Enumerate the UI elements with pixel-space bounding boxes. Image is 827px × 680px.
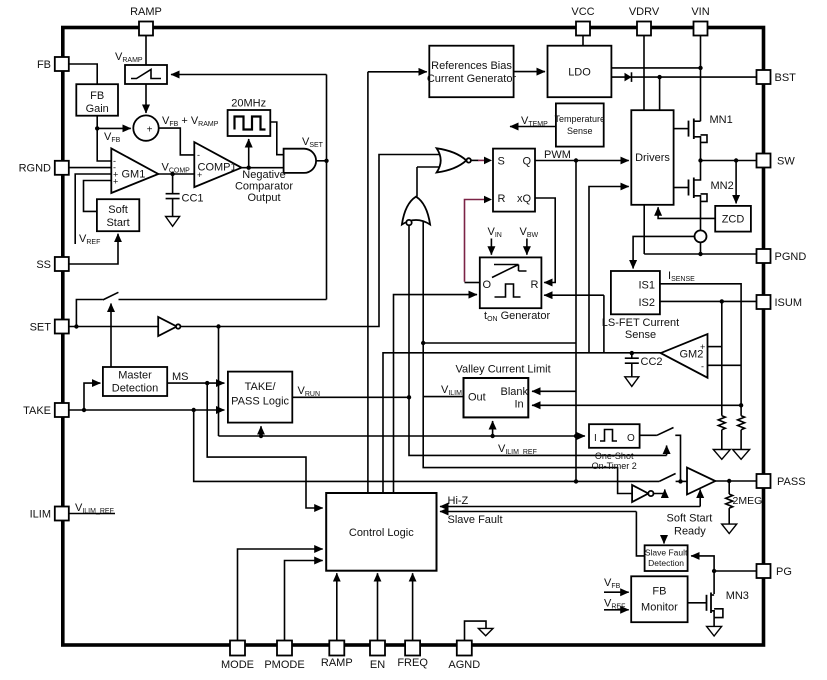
svg-text:RAMP: RAMP [130, 6, 162, 18]
svg-text:Detection: Detection [112, 383, 158, 395]
svg-text:FB: FB [37, 59, 51, 71]
svg-text:Output: Output [247, 192, 280, 204]
svg-text:Soft Start: Soft Start [667, 513, 713, 525]
svg-text:Sense: Sense [567, 126, 593, 136]
svg-text:Master: Master [118, 370, 152, 382]
svg-text:GM1: GM1 [122, 169, 146, 181]
svg-text:Slave Fault: Slave Fault [645, 548, 688, 558]
svg-text:Valley Current Limit: Valley Current Limit [456, 364, 551, 376]
svg-text:Drivers: Drivers [635, 152, 670, 164]
svg-text:CC1: CC1 [182, 193, 204, 205]
svg-text:Out: Out [468, 392, 486, 404]
svg-text:SET: SET [30, 322, 52, 334]
svg-text:Start: Start [106, 217, 129, 229]
svg-text:FB: FB [90, 90, 104, 102]
svg-text:References Bias: References Bias [431, 60, 512, 72]
svg-text:Soft: Soft [108, 204, 128, 216]
svg-text:ZCD: ZCD [722, 214, 745, 226]
svg-text:Q: Q [522, 156, 531, 168]
svg-text:+: + [147, 125, 153, 136]
svg-text:IS2: IS2 [638, 297, 655, 309]
svg-text:Gain: Gain [86, 103, 109, 115]
svg-text:MN3: MN3 [726, 590, 749, 602]
svg-text:PMODE: PMODE [264, 659, 304, 671]
svg-text:+: + [700, 342, 705, 352]
svg-text:CC2: CC2 [641, 356, 663, 368]
svg-text:S: S [498, 156, 505, 168]
svg-text:LS-FET Current: LS-FET Current [602, 317, 679, 329]
svg-text:In: In [515, 399, 524, 411]
svg-text:Hi-Z: Hi-Z [448, 495, 469, 507]
svg-text:FB: FB [652, 586, 666, 598]
svg-text:Ready: Ready [674, 526, 706, 538]
svg-text:PASS: PASS [777, 476, 806, 488]
svg-text:+: + [113, 176, 118, 186]
svg-text:20MHz: 20MHz [231, 98, 266, 110]
svg-text:Sense: Sense [625, 329, 656, 341]
svg-text:Negative: Negative [242, 169, 285, 181]
svg-text:R: R [531, 279, 539, 291]
svg-text:VCC: VCC [571, 6, 594, 18]
svg-text:Slave Fault: Slave Fault [448, 514, 503, 526]
svg-text:ISUM: ISUM [775, 297, 803, 309]
svg-text:BST: BST [775, 72, 797, 84]
svg-text:VDRV: VDRV [629, 6, 660, 18]
svg-text:IS1: IS1 [638, 280, 655, 292]
svg-text:FREQ: FREQ [397, 657, 428, 669]
svg-text:On-Timer 2: On-Timer 2 [592, 461, 637, 471]
svg-text:Monitor: Monitor [641, 602, 678, 614]
svg-text:LDO: LDO [568, 67, 591, 79]
svg-text:Detection: Detection [648, 558, 684, 568]
svg-text:Current Generator: Current Generator [427, 73, 517, 85]
svg-text:Temperature: Temperature [555, 114, 606, 124]
svg-text:PASS Logic: PASS Logic [231, 396, 289, 408]
svg-text:PWM: PWM [544, 149, 571, 161]
svg-text:MN1: MN1 [710, 114, 733, 126]
svg-text:TAKE: TAKE [23, 405, 51, 417]
svg-text:I: I [594, 433, 597, 444]
svg-text:PG: PG [776, 566, 792, 578]
svg-text:SW: SW [777, 156, 795, 168]
svg-text:2MEG: 2MEG [733, 495, 763, 507]
svg-text:TAKE/: TAKE/ [245, 381, 277, 393]
svg-text:O: O [627, 433, 635, 444]
svg-text:O: O [483, 279, 492, 291]
svg-text:AGND: AGND [448, 659, 480, 671]
svg-text:xQ: xQ [517, 193, 532, 205]
svg-text:-: - [197, 150, 200, 160]
svg-text:PGND: PGND [775, 251, 807, 263]
svg-text:MODE: MODE [221, 659, 254, 671]
svg-text:Blank: Blank [501, 386, 529, 398]
svg-text:One-Shot: One-Shot [595, 451, 634, 461]
svg-text:MN2: MN2 [711, 180, 734, 192]
svg-text:R: R [498, 193, 506, 205]
svg-text:EN: EN [370, 659, 385, 671]
svg-text:+: + [197, 170, 202, 180]
svg-text:ILIM: ILIM [30, 509, 51, 521]
svg-text:RAMP: RAMP [321, 657, 353, 669]
svg-text:-: - [701, 362, 704, 372]
svg-text:Control Logic: Control Logic [349, 527, 414, 539]
svg-text:MS: MS [172, 371, 189, 383]
svg-text:RGND: RGND [19, 163, 51, 175]
svg-text:SS: SS [36, 259, 51, 271]
svg-text:COMP1: COMP1 [198, 162, 237, 174]
svg-text:VIN: VIN [691, 6, 709, 18]
svg-text:Comparator: Comparator [235, 181, 293, 193]
